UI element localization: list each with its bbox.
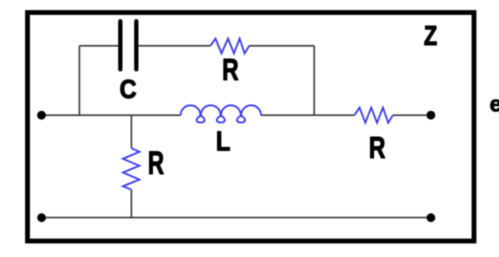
node dot: bottom right terminal xyxy=(427,213,436,222)
capacitor C plates xyxy=(120,21,136,69)
resistor R1 (top, blue zigzag) xyxy=(210,39,249,54)
wire: right vertical stub of parallel branch xyxy=(313,46,315,115)
wire: main middle horizontal, after right resistor xyxy=(393,114,431,116)
svg-text:R: R xyxy=(369,129,386,164)
wire: bottom return xyxy=(42,217,431,219)
node dot: right middle terminal xyxy=(427,111,436,120)
node dot: left middle terminal xyxy=(37,111,46,120)
wire: stub from middle wire down to vertical resistor xyxy=(130,115,132,148)
wire: main middle horizontal, between inductor and right resistor xyxy=(261,114,354,116)
outer box frame xyxy=(28,13,475,242)
resistor R3 (right, blue zigzag) xyxy=(354,108,393,123)
wire: main middle horizontal, left section xyxy=(42,114,181,116)
wire: vertical resistor to bottom return xyxy=(130,190,132,218)
wire: left vertical stub of parallel C/R branch xyxy=(78,46,80,115)
wire: top branch, capacitor right plate to resistor R1 xyxy=(138,45,210,47)
wire: top branch, stub to capacitor left plate xyxy=(79,45,118,47)
svg-text:C: C xyxy=(120,76,137,104)
resistor R2 (vertical, blue zigzag) xyxy=(123,148,139,189)
inductor L (blue coil) xyxy=(181,105,261,122)
svg-text:Z: Z xyxy=(424,21,437,52)
svg-text:L: L xyxy=(216,125,231,157)
svg-text:R: R xyxy=(222,51,239,86)
node dot: bottom left terminal xyxy=(37,213,46,222)
wire: top branch, resistor R1 to right vertical stub xyxy=(249,45,314,47)
svg-text:e: e xyxy=(490,92,499,117)
svg-text:R: R xyxy=(148,145,164,181)
